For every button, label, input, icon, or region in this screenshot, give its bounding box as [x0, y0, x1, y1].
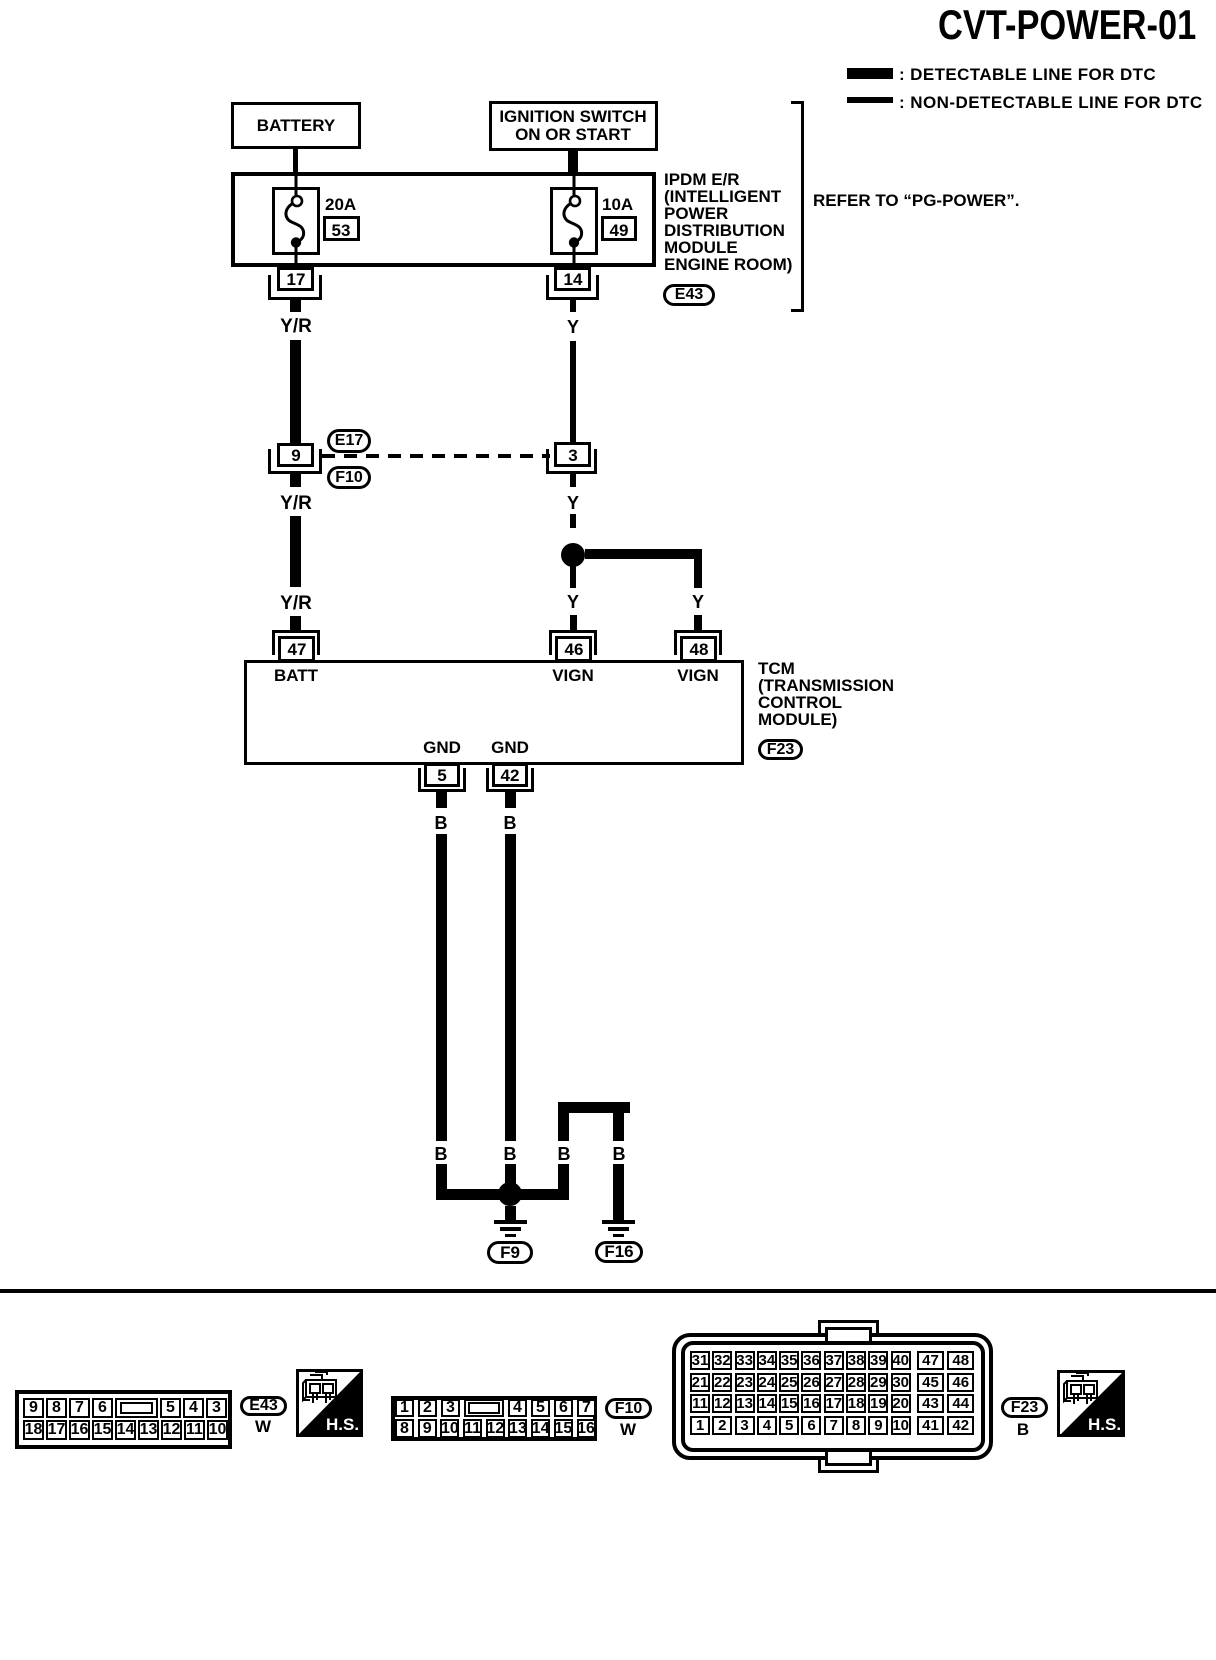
TCM box F23 [244, 660, 744, 765]
wire stub below 17 [290, 300, 301, 312]
connector 14 (IPDM pin) [554, 267, 591, 291]
dashed line 9 to 3 [322, 454, 550, 458]
wire B from 42 (long) [505, 834, 516, 1141]
F23 pin grid row 2 [690, 1373, 974, 1392]
wire Y/R 17 to 9 [290, 340, 301, 443]
fuse 20A (53) [272, 172, 322, 270]
wire stub below 9 [290, 474, 301, 487]
label B [558, 1145, 571, 1163]
wire stub below 14 [570, 300, 576, 312]
F23 inner frame [681, 1341, 985, 1452]
connector 47 [272, 630, 320, 633]
fuse 10A label [602, 196, 633, 213]
connector view F10 [391, 1396, 597, 1441]
label GND [491, 739, 529, 756]
connector 3 [554, 442, 591, 467]
connector 5 (TCM pin) [424, 763, 460, 787]
F23 bottom tab [818, 1457, 879, 1473]
ignition switch box [489, 101, 658, 151]
svg-text:H.S.: H.S. [1088, 1415, 1121, 1434]
E43 pin row 2 [23, 1420, 228, 1440]
F23 pin grid row 4 [690, 1416, 974, 1435]
wire battery to IPDM [293, 149, 298, 174]
label VIGN [552, 667, 594, 684]
wire junction to ground F9 [505, 1206, 516, 1220]
label Y/R [280, 594, 312, 613]
label B [504, 1145, 517, 1163]
label W [620, 1421, 636, 1438]
label B [613, 1145, 626, 1163]
label GND [423, 739, 461, 756]
IPDM label text [664, 171, 792, 273]
n-branch left leg [558, 1113, 569, 1141]
F10 oval label [605, 1398, 652, 1419]
connector view F23 outer [672, 1333, 993, 1460]
wire 3 to junction [570, 514, 576, 528]
wire segment n-left to bar [558, 1164, 569, 1200]
E17 oval label [327, 429, 371, 453]
connector 42 (TCM pin) [492, 763, 528, 787]
wire stub above 46 [570, 615, 577, 630]
legend non-detectable bar [847, 97, 893, 103]
label Y/R [280, 494, 312, 513]
label Y [567, 494, 579, 512]
wire stub below 3 [570, 474, 576, 487]
ground junction dot [498, 1182, 522, 1206]
F23 top tab [818, 1320, 879, 1336]
branch wire to 48 vertical [694, 549, 702, 588]
label VIGN [677, 667, 719, 684]
F23 pin grid row 3 [690, 1394, 974, 1413]
junction dot [561, 543, 585, 567]
wire stub above 47 [290, 616, 301, 630]
E43 oval label [240, 1396, 287, 1416]
branch wire to 48 horizontal [585, 549, 701, 559]
n-branch right leg [613, 1113, 624, 1141]
label B [435, 814, 448, 832]
label B [1017, 1421, 1029, 1438]
n-branch top bar [558, 1102, 630, 1113]
wire segment 5 to corner [436, 1164, 447, 1200]
H.S. logo left [296, 1369, 363, 1437]
connector 48 [674, 630, 722, 633]
refer bracket [801, 101, 804, 312]
fuse 10A (49) [550, 172, 600, 270]
label Y [567, 318, 579, 336]
connector 9 [277, 443, 314, 467]
ground symbol F9 [494, 1220, 527, 1224]
label Y/R [280, 317, 312, 336]
E43 pin row 1 [23, 1398, 227, 1418]
F10 pin row 2 [395, 1419, 596, 1438]
title CVT-POWER-01 [938, 4, 1196, 46]
F16 oval label [595, 1241, 643, 1263]
legend detectable text [899, 66, 1156, 83]
H.S. logo right [1057, 1370, 1125, 1437]
fuse 49 box [601, 216, 637, 241]
wire stub below 42 [505, 792, 516, 808]
wire stub above 48 [694, 615, 702, 630]
wire Y 14 to 3 [570, 341, 576, 442]
F10 oval label [327, 466, 371, 489]
TCM label text [758, 660, 894, 728]
wire ignition to IPDM [568, 151, 578, 174]
F23 oval label [758, 739, 803, 760]
refer text [813, 192, 1020, 209]
legend detectable bar [847, 68, 893, 79]
label W [255, 1418, 271, 1435]
label BATT [274, 667, 318, 684]
wire below junction [570, 566, 576, 588]
wire segment 42 to junction [505, 1164, 516, 1194]
wire segment n-right to ground [613, 1164, 624, 1220]
label Y (left) [567, 593, 579, 611]
connector view E43 [15, 1390, 232, 1449]
legend non-detectable text [899, 94, 1203, 111]
F23 pin grid row 1 [690, 1351, 974, 1370]
F9 oval label [487, 1241, 533, 1264]
wire stub below 5 [436, 792, 447, 808]
F10 pin row 1 [395, 1399, 596, 1417]
ground symbol F16 [602, 1220, 635, 1224]
label Y (right) [692, 593, 704, 611]
connector 17 (IPDM pin) [277, 267, 314, 291]
E43 oval label [663, 284, 715, 306]
wire B from 5 (long) [436, 834, 447, 1141]
separator line [0, 1289, 1216, 1293]
IPDM E/R box E43 [231, 172, 656, 267]
connector 46 [549, 630, 597, 633]
ground bus horizontal [436, 1189, 569, 1200]
battery box [231, 102, 361, 149]
F23 oval label [1001, 1397, 1048, 1418]
fuse 20A label [325, 196, 356, 213]
label B [504, 814, 517, 832]
wire Y/R 9 down [290, 516, 301, 587]
label B [435, 1145, 448, 1163]
fuse 53 box [323, 216, 360, 241]
svg-text:H.S.: H.S. [326, 1415, 359, 1434]
